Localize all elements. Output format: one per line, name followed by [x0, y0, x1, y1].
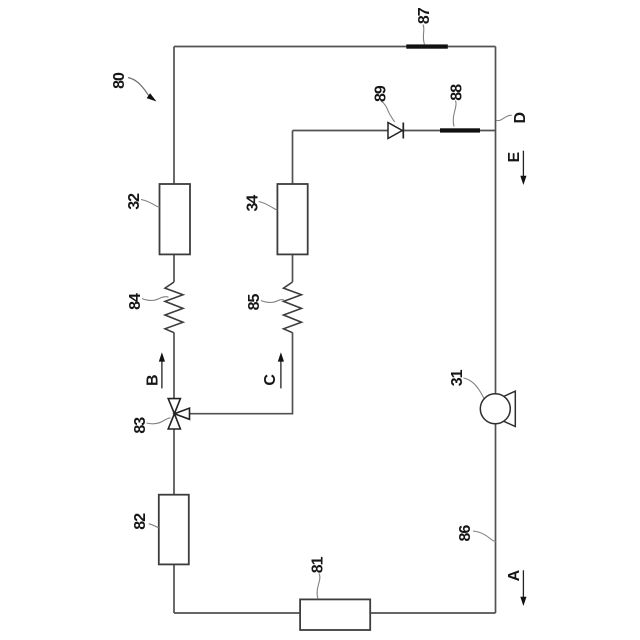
- svg-text:83: 83: [132, 417, 149, 434]
- leader for 88: [453, 101, 456, 127]
- heat exchanger rect 82: [159, 495, 189, 565]
- wire left vertical between valve 83 and bottom: [173, 430, 175, 614]
- wire branch horizontal with diode at y=130: [293, 130, 496, 132]
- wire bottom horizontal of loop: [174, 612, 496, 614]
- resistor 85 zigzag: [284, 282, 302, 333]
- arrow C: [280, 361, 282, 388]
- svg-text:82: 82: [132, 513, 149, 530]
- leader for 31: [464, 378, 484, 399]
- leader for 80 with arrowhead: [128, 78, 152, 100]
- three-way valve 83: [168, 399, 189, 429]
- leader for 84: [142, 297, 169, 301]
- heat exchanger rect 32: [160, 184, 191, 254]
- svg-text:88: 88: [448, 84, 465, 101]
- svg-text:32: 32: [126, 193, 143, 210]
- leader for 86: [473, 531, 496, 542]
- wire left vertical between resistor 84 and valve 83: [173, 333, 175, 399]
- wire right vertical of loop: [495, 47, 497, 614]
- svg-text:C: C: [262, 374, 279, 386]
- thick bar 87: [406, 44, 448, 48]
- arrow A: [522, 570, 524, 597]
- arrow E: [522, 151, 524, 177]
- heat exchanger rect 81: [300, 599, 370, 630]
- leader for 82: [149, 524, 159, 528]
- leader for 89: [381, 101, 395, 122]
- svg-text:86: 86: [457, 525, 474, 542]
- svg-text:31: 31: [449, 369, 466, 386]
- svg-text:85: 85: [246, 294, 263, 311]
- svg-text:34: 34: [245, 195, 262, 212]
- thick bar 88: [440, 128, 480, 132]
- compressor 31 trapezoid: [504, 391, 516, 426]
- compressor 31 circle: [480, 394, 510, 424]
- svg-text:89: 89: [372, 85, 389, 102]
- leader for 81: [317, 574, 320, 600]
- wire left vertical upper segment: [173, 47, 175, 283]
- svg-text:84: 84: [127, 293, 144, 310]
- svg-text:80: 80: [111, 72, 128, 89]
- leader for 83: [147, 418, 171, 424]
- svg-text:87: 87: [416, 7, 433, 24]
- svg-text:A: A: [506, 569, 523, 581]
- resistor 84 zigzag: [165, 282, 183, 333]
- wire top horizontal of loop 80: [174, 46, 496, 48]
- svg-text:D: D: [512, 112, 529, 124]
- svg-text:B: B: [144, 374, 161, 386]
- svg-text:E: E: [506, 151, 523, 162]
- svg-text:81: 81: [310, 556, 327, 573]
- arrow B: [161, 361, 163, 388]
- leader for 32: [141, 200, 160, 208]
- leader for 34: [259, 202, 278, 211]
- heat exchanger rect 34: [277, 184, 307, 254]
- leader for 87: [423, 25, 425, 45]
- wire branch vertical down to rect 34 and resistor 85: [292, 131, 294, 283]
- leader for D: [496, 115, 511, 120]
- wire branch vertical below resistor 85 to valve level: [190, 333, 293, 414]
- diode 89 triangle and cathode bar: [388, 123, 402, 139]
- leader for 85: [261, 300, 284, 303]
